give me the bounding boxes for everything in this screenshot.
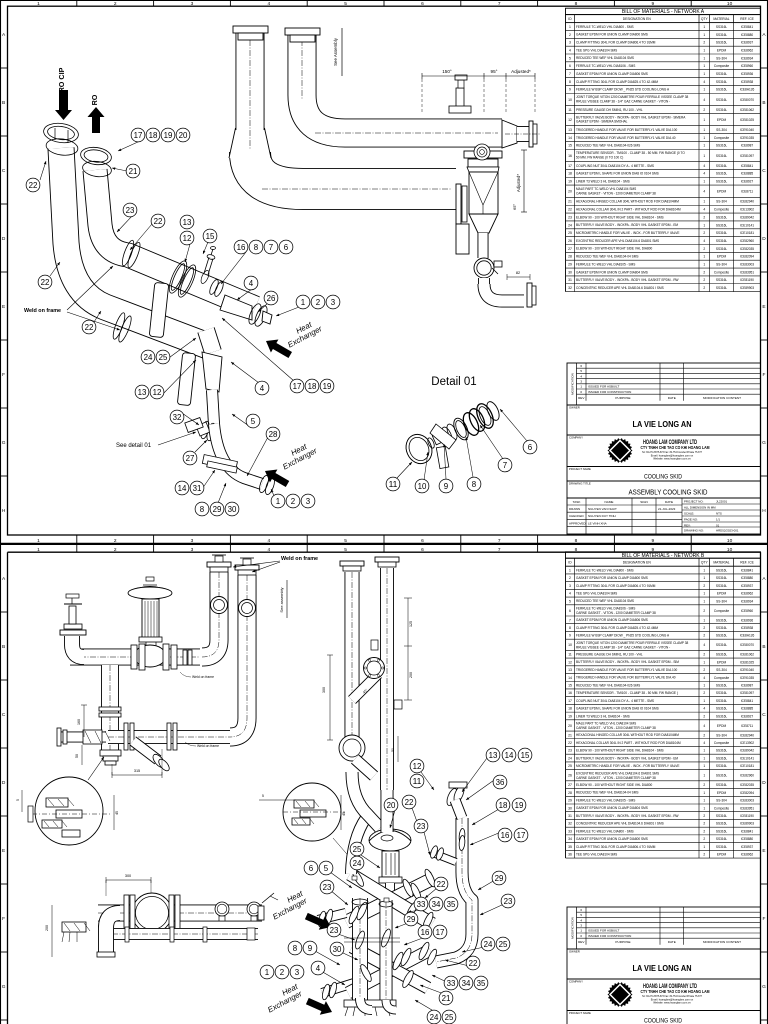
svg-text:Composite: Composite bbox=[714, 136, 729, 140]
svg-text:6: 6 bbox=[528, 443, 532, 452]
svg-text:6: 6 bbox=[421, 1, 424, 7]
svg-text:ICE8936: ICE8936 bbox=[741, 618, 754, 622]
svg-text:ICE8880: ICE8880 bbox=[741, 837, 754, 841]
svg-text:15: 15 bbox=[521, 751, 530, 760]
svg-text:20: 20 bbox=[568, 190, 572, 194]
svg-text:RRULE VISSEE CLAMP 38 - 1/4" G: RRULE VISSEE CLAMP 38 - 1/4" GAZ CARNE G… bbox=[576, 645, 670, 649]
svg-text:CTY TNHH CHE TAO CO KHI HOANG: CTY TNHH CHE TAO CO KHI HOANG LAM bbox=[641, 989, 710, 994]
svg-text:4: 4 bbox=[703, 164, 705, 168]
svg-text:ICE81097: ICE81097 bbox=[740, 154, 754, 158]
svg-text:SS316L: SS316L bbox=[716, 25, 728, 29]
svg-text:4: 4 bbox=[703, 707, 705, 711]
svg-text:ICE8936: ICE8936 bbox=[741, 72, 754, 76]
svg-text:9: 9 bbox=[651, 538, 654, 544]
svg-text:18: 18 bbox=[568, 707, 572, 711]
svg-text:33: 33 bbox=[447, 979, 456, 988]
svg-text:MODIFICATION: MODIFICATION bbox=[570, 373, 574, 395]
svg-text:MICROMETRIC HANDLE FOR VALVE -: MICROMETRIC HANDLE FOR VALVE - INOX - FO… bbox=[576, 764, 679, 768]
svg-text:SS316L: SS316L bbox=[716, 154, 728, 158]
svg-text:CONCENTRIC REDUCER APE VHL DIA: CONCENTRIC REDUCER APE VHL DIA8104.6 DIA… bbox=[576, 822, 664, 826]
svg-text:35: 35 bbox=[477, 979, 486, 988]
svg-text:4: 4 bbox=[703, 643, 705, 647]
svg-text:EPDM: EPDM bbox=[717, 791, 727, 795]
svg-text:H: H bbox=[762, 508, 766, 514]
svg-text:25: 25 bbox=[159, 353, 168, 362]
svg-text:COOLING SKID: COOLING SKID bbox=[644, 474, 682, 481]
svg-text:2: 2 bbox=[703, 668, 705, 672]
svg-text:ICE82035: ICE82035 bbox=[740, 247, 754, 251]
svg-text:36: 36 bbox=[568, 853, 572, 857]
svg-text:LA VIE LONG AN: LA VIE LONG AN bbox=[633, 963, 692, 973]
svg-text:31: 31 bbox=[568, 278, 572, 282]
svg-text:19: 19 bbox=[164, 131, 173, 140]
svg-text:1: 1 bbox=[703, 33, 705, 37]
svg-text:ICE81190: ICE81190 bbox=[740, 814, 754, 818]
svg-text:1: 1 bbox=[569, 568, 571, 572]
svg-text:COUPLING NUT 304L DIA8104 DY A: COUPLING NUT 304L DIA8104 DY A - 4 METTE… bbox=[576, 164, 654, 168]
svg-text:2: 2 bbox=[703, 829, 705, 833]
svg-text:DATE: DATE bbox=[668, 396, 676, 400]
svg-text:GASKET EPDM FOR UNION CLAMP DI: GASKET EPDM FOR UNION CLAMP DIA804 SMS bbox=[576, 806, 648, 810]
svg-text:27: 27 bbox=[568, 783, 572, 787]
svg-text:EXCENTRIC REDUCER APE VHL DIA8: EXCENTRIC REDUCER APE VHL DIA8104.6 DIA8… bbox=[576, 772, 659, 776]
svg-text:4: 4 bbox=[260, 384, 265, 393]
svg-text:13: 13 bbox=[568, 128, 572, 132]
svg-text:1: 1 bbox=[703, 180, 705, 184]
svg-text:SS316L: SS316L bbox=[716, 278, 728, 282]
svg-text:SS316L: SS316L bbox=[716, 164, 728, 168]
svg-text:ICE8962: ICE8962 bbox=[741, 48, 754, 52]
svg-text:QTY: QTY bbox=[701, 17, 709, 21]
svg-text:CLAMP FITTING 304L FOR CLAMP D: CLAMP FITTING 304L FOR CLAMP DIA806.4 TO… bbox=[576, 845, 656, 849]
svg-text:ICE82960: ICE82960 bbox=[740, 774, 754, 778]
svg-text:PROJECT NO:: PROJECT NO: bbox=[684, 499, 704, 503]
svg-text:21-JUL-2023: 21-JUL-2023 bbox=[658, 507, 676, 511]
svg-text:34: 34 bbox=[462, 979, 471, 988]
svg-text:4: 4 bbox=[703, 676, 705, 680]
svg-text:11: 11 bbox=[389, 480, 398, 489]
svg-text:JL22001: JL22001 bbox=[716, 499, 727, 503]
svg-text:31: 31 bbox=[568, 814, 572, 818]
svg-text:20: 20 bbox=[387, 801, 396, 810]
svg-text:ICE81097: ICE81097 bbox=[740, 691, 754, 695]
svg-text:23: 23 bbox=[568, 215, 572, 219]
svg-text:3: 3 bbox=[306, 497, 310, 506]
svg-text:ELBOW 90 - 100 WITHOUT RIGHT S: ELBOW 90 - 100 WITHOUT RIGHT SIDE VHL DI… bbox=[576, 247, 652, 251]
svg-text:1: 1 bbox=[703, 618, 705, 622]
svg-text:MATERIAL: MATERIAL bbox=[713, 17, 729, 21]
svg-text:REDUCED TEE WEF VHL DIA8104-02: REDUCED TEE WEF VHL DIA8104-026 SMS bbox=[576, 683, 640, 687]
svg-text:SS316L: SS316L bbox=[716, 98, 728, 102]
svg-text:SS316L: SS316L bbox=[716, 172, 728, 176]
svg-text:B: B bbox=[2, 644, 5, 650]
svg-text:6: 6 bbox=[569, 609, 571, 613]
svg-text:ICE10141: ICE10141 bbox=[740, 223, 754, 227]
svg-text:MICROMETRIC HANDLE FOR VALVE -: MICROMETRIC HANDLE FOR VALVE - INOX - FO… bbox=[576, 231, 679, 235]
svg-text:PURPOSE: PURPOSE bbox=[615, 940, 630, 944]
svg-text:COUPLING NUT 304L DIA8104 DY A: COUPLING NUT 304L DIA8104 DY A - 4 METTE… bbox=[576, 699, 654, 703]
svg-text:5: 5 bbox=[262, 794, 264, 798]
svg-text:13: 13 bbox=[183, 218, 192, 227]
svg-text:OWNER: OWNER bbox=[569, 950, 580, 954]
svg-text:ICE8880: ICE8880 bbox=[741, 33, 754, 37]
svg-text:BUTTERFLY VALVE BODY - INOXPA: BUTTERFLY VALVE BODY - INOXPA - BODY VHL… bbox=[576, 223, 678, 227]
svg-text:5: 5 bbox=[324, 864, 329, 873]
svg-text:SS-304: SS-304 bbox=[716, 56, 727, 60]
svg-text:MALE PART TC-WELD VHL DIA8104: MALE PART TC-WELD VHL DIA8104 SMS bbox=[576, 722, 636, 726]
svg-text:22: 22 bbox=[405, 798, 414, 807]
svg-text:50: 50 bbox=[75, 754, 79, 758]
svg-text:1: 1 bbox=[703, 200, 705, 204]
svg-text:26: 26 bbox=[568, 774, 572, 778]
svg-text:Tel: 84-274-6575-873 Fax: 84-7: Tel: 84-274-6575-873 Fax: 84-754 Founded… bbox=[642, 451, 703, 454]
svg-text:SS316L: SS316L bbox=[716, 684, 728, 688]
svg-text:4: 4 bbox=[703, 172, 705, 176]
svg-text:ICE8841: ICE8841 bbox=[741, 699, 754, 703]
svg-text:29: 29 bbox=[407, 915, 416, 924]
svg-text:MODIFICATION CONTENT: MODIFICATION CONTENT bbox=[703, 396, 741, 400]
svg-text:SS316L: SS316L bbox=[716, 749, 728, 753]
svg-text:4: 4 bbox=[569, 592, 571, 596]
svg-text:EPDM: EPDM bbox=[717, 190, 727, 194]
svg-text:29: 29 bbox=[568, 263, 572, 267]
svg-text:30: 30 bbox=[228, 505, 237, 514]
svg-text:HEXAGONAL COLLAR 304L IN 2 PAR: HEXAGONAL COLLAR 304L IN 2 PART - WITHOU… bbox=[576, 207, 681, 211]
svg-text:9: 9 bbox=[569, 634, 571, 638]
svg-text:10: 10 bbox=[568, 98, 572, 102]
svg-text:22: 22 bbox=[568, 208, 572, 212]
svg-text:ICE81025: ICE81025 bbox=[740, 118, 754, 122]
svg-text:17: 17 bbox=[568, 699, 572, 703]
svg-text:DESIGNATION EN: DESIGNATION EN bbox=[623, 561, 652, 565]
svg-text:200: 200 bbox=[45, 925, 49, 931]
svg-text:F: F bbox=[2, 372, 5, 378]
svg-text:1: 1 bbox=[703, 774, 705, 778]
svg-text:REDUCED TEE WEF VHL DIA8104-02: REDUCED TEE WEF VHL DIA8104-026 SMS bbox=[576, 144, 640, 148]
svg-text:G: G bbox=[2, 440, 6, 446]
svg-text:4: 4 bbox=[703, 98, 705, 102]
svg-text:Composite: Composite bbox=[714, 741, 729, 745]
svg-text:16: 16 bbox=[421, 928, 430, 937]
svg-text:REF. ICE: REF. ICE bbox=[740, 561, 754, 565]
svg-text:SS316L: SS316L bbox=[716, 215, 728, 219]
svg-text:TRIGGERED HANDLE FOR VALVE FOR: TRIGGERED HANDLE FOR VALVE FOR BUTTERFLY… bbox=[576, 128, 678, 132]
svg-text:6: 6 bbox=[421, 547, 424, 553]
svg-text:ICE91040: ICE91040 bbox=[740, 128, 754, 132]
svg-text:2: 2 bbox=[703, 278, 705, 282]
svg-text:ICE8937: ICE8937 bbox=[741, 41, 754, 45]
svg-text:See Assembly: See Assembly bbox=[333, 37, 338, 66]
svg-text:ICE8987: ICE8987 bbox=[741, 684, 754, 688]
svg-text:B: B bbox=[2, 100, 5, 106]
svg-text:ALL DIMENSION IN MM: ALL DIMENSION IN MM bbox=[684, 505, 716, 509]
svg-text:21: 21 bbox=[568, 200, 572, 204]
svg-text:1: 1 bbox=[703, 128, 705, 132]
svg-text:8: 8 bbox=[293, 944, 297, 953]
svg-text:50: 50 bbox=[391, 748, 395, 752]
svg-text:18: 18 bbox=[568, 172, 572, 176]
svg-text:22: 22 bbox=[437, 880, 446, 889]
svg-text:5: 5 bbox=[16, 799, 20, 801]
svg-text:TASK: TASK bbox=[573, 500, 582, 504]
svg-text:DESIGNATION EN: DESIGNATION EN bbox=[623, 17, 652, 21]
svg-text:300: 300 bbox=[125, 874, 131, 878]
svg-text:HEXAGONAL HINGED COLLAR 304L W: HEXAGONAL HINGED COLLAR 304L WITHOUT ROD… bbox=[576, 200, 679, 204]
svg-text:1: 1 bbox=[265, 968, 269, 977]
svg-text:SS-304: SS-304 bbox=[716, 799, 727, 803]
svg-text:ICE91040: ICE91040 bbox=[740, 668, 754, 672]
svg-text:ICE8927: ICE8927 bbox=[741, 714, 754, 718]
svg-text:C: C bbox=[2, 168, 6, 174]
svg-text:Composite: Composite bbox=[714, 609, 729, 613]
svg-text:1: 1 bbox=[703, 25, 705, 29]
svg-text:RO: RO bbox=[90, 94, 99, 105]
svg-text:B: B bbox=[762, 100, 765, 106]
svg-text:1: 1 bbox=[703, 592, 705, 596]
svg-text:ICE80070: ICE80070 bbox=[740, 643, 754, 647]
svg-text:FERRULE TC-WELD VHL DIA800 - S: FERRULE TC-WELD VHL DIA800 - SMS bbox=[576, 568, 634, 572]
svg-text:5: 5 bbox=[344, 547, 347, 553]
svg-text:32: 32 bbox=[568, 286, 572, 290]
svg-text:23: 23 bbox=[504, 897, 513, 906]
svg-text:32: 32 bbox=[568, 822, 572, 826]
svg-text:10: 10 bbox=[568, 643, 572, 647]
svg-text:2: 2 bbox=[569, 576, 571, 580]
svg-text:SS316L: SS316L bbox=[716, 626, 728, 630]
svg-text:C: C bbox=[762, 712, 766, 718]
svg-text:16: 16 bbox=[568, 691, 572, 695]
svg-text:24: 24 bbox=[484, 940, 493, 949]
svg-text:FERRULE TC-WELD VHL DIA8105 -: FERRULE TC-WELD VHL DIA8105 - SMS bbox=[576, 798, 635, 802]
svg-text:1: 1 bbox=[703, 568, 705, 572]
svg-text:ICE82940: ICE82940 bbox=[740, 200, 754, 204]
svg-text:2: 2 bbox=[703, 41, 705, 45]
svg-text:22: 22 bbox=[41, 278, 50, 287]
svg-text:JOINT TORQUE VITON 1200 DIAMET: JOINT TORQUE VITON 1200 DIAMETRE POUR FE… bbox=[576, 95, 689, 99]
svg-text:24: 24 bbox=[430, 1013, 439, 1022]
svg-text:30: 30 bbox=[568, 806, 572, 810]
svg-text:SS316L: SS316L bbox=[716, 231, 728, 235]
svg-text:1: 1 bbox=[703, 576, 705, 580]
svg-text:LINER T3 WELD 3 HL DIA8104 - S: LINER T3 WELD 3 HL DIA8104 - SMS bbox=[576, 179, 630, 183]
svg-text:45: 45 bbox=[342, 812, 346, 816]
svg-text:DRAWING NO:: DRAWING NO: bbox=[684, 528, 704, 532]
svg-text:1: 1 bbox=[703, 660, 705, 664]
svg-text:ICE8927: ICE8927 bbox=[741, 180, 754, 184]
svg-text:G: G bbox=[762, 440, 766, 446]
svg-text:NGUYEN VAN NHUT: NGUYEN VAN NHUT bbox=[588, 507, 617, 511]
svg-text:17: 17 bbox=[436, 928, 445, 937]
svg-text:3: 3 bbox=[191, 547, 194, 553]
svg-text:ICE82035: ICE82035 bbox=[740, 783, 754, 787]
svg-text:EPDM: EPDM bbox=[717, 853, 727, 857]
svg-text:E: E bbox=[2, 848, 5, 854]
svg-text:FERRULE W BSP CLAMP DIOW _ PN2: FERRULE W BSP CLAMP DIOW _ PN25 STD COOL… bbox=[576, 634, 670, 638]
svg-text:SS316L: SS316L bbox=[716, 223, 728, 227]
svg-text:Composite: Composite bbox=[714, 806, 729, 810]
svg-text:NGUYEN DUY TINH: NGUYEN DUY TINH bbox=[588, 514, 616, 518]
svg-text:SS316L: SS316L bbox=[716, 829, 728, 833]
svg-text:23: 23 bbox=[568, 749, 572, 753]
svg-text:ICE8885: ICE8885 bbox=[741, 707, 754, 711]
svg-text:5: 5 bbox=[569, 56, 571, 60]
svg-text:EXCENTRIC REDUCER APE VHL DIA8: EXCENTRIC REDUCER APE VHL DIA8104.6 DIA8… bbox=[576, 239, 659, 243]
svg-text:CHECKED: CHECKED bbox=[569, 514, 585, 518]
svg-text:35: 35 bbox=[447, 900, 456, 909]
svg-text:CLAMP FITTING 304L FOR CLAMP D: CLAMP FITTING 304L FOR CLAMP DIA825.4 TO… bbox=[576, 626, 658, 630]
svg-text:HRD52/2023-001: HRD52/2023-001 bbox=[716, 528, 739, 532]
svg-text:PROJECT NAME: PROJECT NAME bbox=[569, 467, 591, 471]
svg-text:ICE8841: ICE8841 bbox=[741, 568, 754, 572]
svg-text:18: 18 bbox=[149, 131, 158, 140]
svg-text:3: 3 bbox=[331, 298, 335, 307]
svg-text:ICE8960: ICE8960 bbox=[741, 64, 754, 68]
svg-text:TRIGGERED HANDLE FOR VALVE FOR: TRIGGERED HANDLE FOR VALVE FOR BUTTERFLY… bbox=[576, 136, 676, 140]
svg-text:2: 2 bbox=[703, 822, 705, 826]
svg-text:RO CIP: RO CIP bbox=[57, 67, 66, 92]
svg-text:3: 3 bbox=[569, 584, 571, 588]
svg-text:LINER T3 WELD 3 HL DIA8104 - S: LINER T3 WELD 3 HL DIA8104 - SMS bbox=[576, 714, 630, 718]
svg-text:ICE8841: ICE8841 bbox=[741, 829, 754, 833]
svg-text:SS316L: SS316L bbox=[716, 756, 728, 760]
svg-text:COMPANY: COMPANY bbox=[569, 436, 583, 440]
svg-text:2: 2 bbox=[280, 968, 284, 977]
svg-text:ELBOW 90 - 100 WITHOUT RIGHT S: ELBOW 90 - 100 WITHOUT RIGHT SIDE VHL DI… bbox=[576, 215, 664, 219]
svg-text:2: 2 bbox=[114, 547, 117, 553]
svg-text:ASSEMBLY COOLING SKID: ASSEMBLY COOLING SKID bbox=[629, 488, 708, 497]
svg-text:18: 18 bbox=[499, 801, 508, 810]
svg-text:315: 315 bbox=[134, 769, 140, 773]
svg-text:SS316L: SS316L bbox=[716, 180, 728, 184]
svg-text:2: 2 bbox=[703, 814, 705, 818]
svg-text:ICE8841: ICE8841 bbox=[741, 164, 754, 168]
svg-text:SS316L: SS316L bbox=[716, 774, 728, 778]
svg-text:15: 15 bbox=[568, 144, 572, 148]
svg-text:6: 6 bbox=[421, 538, 424, 544]
svg-text:11: 11 bbox=[413, 777, 422, 786]
svg-text:2: 2 bbox=[114, 1, 117, 7]
svg-text:1: 1 bbox=[703, 64, 705, 68]
svg-text:Weld on frame: Weld on frame bbox=[192, 675, 214, 679]
svg-text:1: 1 bbox=[703, 223, 705, 227]
svg-text:8: 8 bbox=[569, 626, 571, 630]
svg-text:SS316L: SS316L bbox=[716, 33, 728, 37]
svg-text:GASKET EPDM FOR UNION CLAMP DI: GASKET EPDM FOR UNION CLAMP DIA804 SMS bbox=[576, 270, 648, 274]
svg-text:ICE89042: ICE89042 bbox=[740, 749, 754, 753]
svg-text:Weld on frame: Weld on frame bbox=[197, 744, 219, 748]
svg-text:19: 19 bbox=[568, 180, 572, 184]
svg-text:SS316L: SS316L bbox=[716, 247, 728, 251]
svg-text:23: 23 bbox=[323, 883, 332, 892]
svg-text:ICE8937: ICE8937 bbox=[741, 845, 754, 849]
svg-text:1/1: 1/1 bbox=[716, 517, 720, 521]
svg-text:ICE13902: ICE13902 bbox=[740, 741, 754, 745]
svg-text:4: 4 bbox=[267, 547, 270, 553]
svg-text:2: 2 bbox=[114, 538, 117, 544]
svg-text:2: 2 bbox=[703, 286, 705, 290]
svg-text:21: 21 bbox=[129, 167, 138, 176]
svg-text:Adjusted*: Adjusted* bbox=[511, 69, 531, 74]
svg-text:30: 30 bbox=[568, 270, 572, 274]
svg-text:5: 5 bbox=[344, 1, 347, 7]
svg-text:SCALE:: SCALE: bbox=[684, 511, 694, 515]
svg-text:REDUCED TEE WEF VHL DIA8104 SM: REDUCED TEE WEF VHL DIA8104 SMS bbox=[576, 56, 634, 60]
svg-text:BUTTERFLY VALVE BODY - INOXPA: BUTTERFLY VALVE BODY - INOXPA - BODY VHL… bbox=[576, 278, 679, 282]
svg-text:DRAWING TITLE: DRAWING TITLE bbox=[569, 482, 591, 486]
svg-text:OWNER: OWNER bbox=[569, 406, 580, 410]
svg-text:1: 1 bbox=[276, 497, 280, 506]
svg-text:25: 25 bbox=[445, 1013, 454, 1022]
svg-text:7: 7 bbox=[498, 538, 501, 544]
svg-text:20: 20 bbox=[179, 131, 188, 140]
svg-text:7: 7 bbox=[269, 243, 273, 252]
svg-text:FERRULE TC-WELD VHL DIA800 - S: FERRULE TC-WELD VHL DIA800 - SMS bbox=[576, 829, 634, 833]
svg-text:34: 34 bbox=[432, 900, 441, 909]
svg-text:FERRULE TC-WELD VHL DIA8106 -: FERRULE TC-WELD VHL DIA8106 - SMS bbox=[576, 607, 635, 611]
svg-text:1: 1 bbox=[703, 88, 705, 92]
svg-text:1: 1 bbox=[703, 263, 705, 267]
svg-text:D: D bbox=[2, 780, 6, 786]
svg-text:ICE81025: ICE81025 bbox=[740, 660, 754, 664]
svg-text:ICE89903: ICE89903 bbox=[740, 286, 754, 290]
svg-text:NTS: NTS bbox=[716, 511, 722, 515]
svg-text:Detail 01: Detail 01 bbox=[431, 376, 476, 388]
svg-text:REV: REV bbox=[578, 940, 585, 944]
svg-text:3: 3 bbox=[191, 1, 194, 7]
svg-text:14: 14 bbox=[178, 484, 187, 493]
svg-text:MODIFICATION: MODIFICATION bbox=[570, 917, 574, 939]
svg-text:F: F bbox=[763, 372, 766, 378]
svg-text:TEMPERATURE SENSOR - TMI100 -: TEMPERATURE SENSOR - TMI100 - CLAMP 38 -… bbox=[576, 151, 685, 155]
svg-text:ICE83003: ICE83003 bbox=[740, 799, 754, 803]
svg-text:ISSUED FOR ASBUILT: ISSUED FOR ASBUILT bbox=[588, 385, 619, 389]
svg-text:34: 34 bbox=[568, 837, 572, 841]
svg-text:14: 14 bbox=[568, 676, 572, 680]
svg-text:23: 23 bbox=[417, 822, 426, 831]
svg-text:CONCENTRIC REDUCER APE VHL DIA: CONCENTRIC REDUCER APE VHL DIA8104.6 DIA… bbox=[576, 286, 664, 290]
svg-text:ICE83951: ICE83951 bbox=[740, 270, 754, 274]
svg-text:ICE89042: ICE89042 bbox=[740, 215, 754, 219]
svg-text:1: 1 bbox=[703, 791, 705, 795]
svg-text:SS316L: SS316L bbox=[716, 576, 728, 580]
svg-text:82: 82 bbox=[516, 271, 520, 275]
svg-text:D: D bbox=[2, 236, 6, 242]
svg-text:26: 26 bbox=[267, 294, 276, 303]
svg-text:ICE8937: ICE8937 bbox=[741, 584, 754, 588]
svg-text:8: 8 bbox=[200, 505, 204, 514]
svg-text:TRIGGERED HANDLE FOR VALVE FOR: TRIGGERED HANDLE FOR VALVE FOR BUTTERFLY… bbox=[576, 668, 678, 672]
svg-text:EPDM: EPDM bbox=[717, 255, 727, 259]
svg-text:CARNE GASKET - VITON - 1200 DI: CARNE GASKET - VITON - 1200 DIAMETER CLA… bbox=[576, 191, 656, 195]
svg-text:7: 7 bbox=[498, 547, 501, 553]
svg-text:Composite: Composite bbox=[714, 270, 729, 274]
svg-text:1: 1 bbox=[703, 799, 705, 803]
svg-text:E: E bbox=[2, 304, 5, 310]
svg-text:25: 25 bbox=[568, 764, 572, 768]
svg-text:17: 17 bbox=[568, 164, 572, 168]
svg-text:SS316L: SS316L bbox=[716, 691, 728, 695]
svg-text:45: 45 bbox=[115, 811, 119, 815]
svg-text:ICE81062: ICE81062 bbox=[740, 108, 754, 112]
svg-text:Weld on frame: Weld on frame bbox=[24, 308, 61, 314]
svg-text:5: 5 bbox=[251, 417, 256, 426]
svg-text:160: 160 bbox=[77, 719, 81, 725]
svg-text:DRAWN: DRAWN bbox=[569, 507, 580, 511]
svg-text:SS-304: SS-304 bbox=[716, 599, 727, 603]
svg-text:2: 2 bbox=[703, 714, 705, 718]
svg-text:2: 2 bbox=[703, 584, 705, 588]
svg-text:REV: REV bbox=[578, 396, 585, 400]
